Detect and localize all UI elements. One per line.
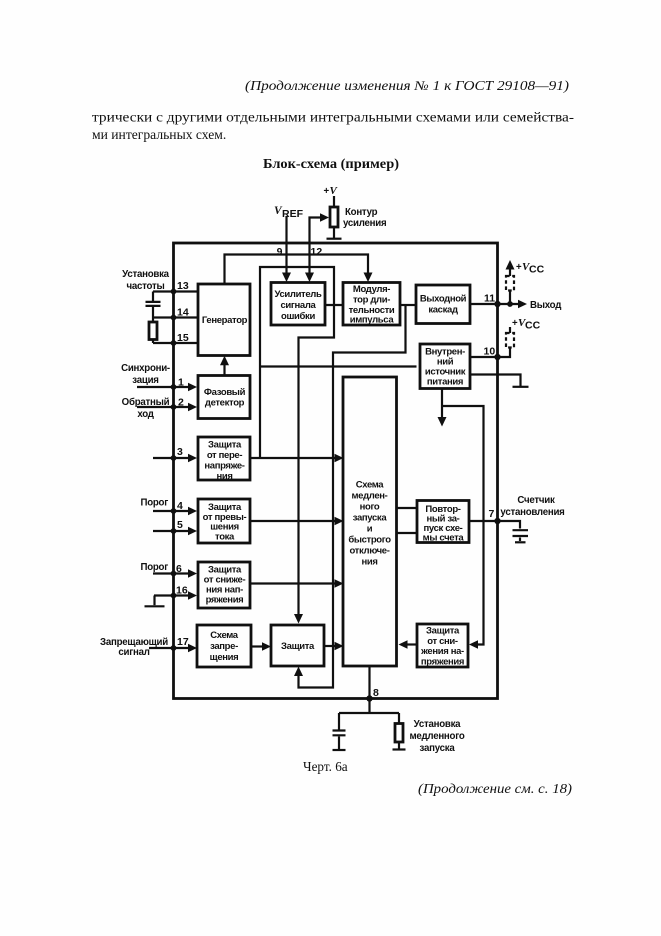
resistor dashed pull-up pin 10 xyxy=(506,333,514,348)
svg-text:запуска: запуска xyxy=(420,743,456,754)
wire pin 15 xyxy=(153,342,198,344)
wire pin 11 output xyxy=(470,303,521,305)
svg-text:Порог: Порог xyxy=(140,498,168,509)
block Защита от перенапряжения xyxy=(198,437,250,482)
arrowhead pin 6 into undervoltage protection xyxy=(188,569,197,578)
svg-text:Выходной: Выходной xyxy=(420,294,467,305)
arrowhead Выход xyxy=(518,300,527,309)
svg-text:частоты: частоты xyxy=(127,281,165,292)
ground pin 7 capacitor xyxy=(515,541,526,543)
svg-text:Модуля-: Модуля- xyxy=(353,284,390,295)
arrowhead pin 17 into inhibit circuit xyxy=(188,644,197,653)
wire feedback bracket over error amp xyxy=(260,267,334,617)
node pin 5 xyxy=(171,528,177,534)
node pin 17 xyxy=(171,645,177,651)
arrowhead into generator bottom xyxy=(220,356,229,366)
wire pin 3 xyxy=(153,457,192,459)
svg-text:зация: зация xyxy=(132,375,158,386)
wire resistor to ground xyxy=(333,227,335,238)
node pin 10 on boundary xyxy=(494,354,500,360)
svg-text:Схема: Схема xyxy=(210,630,239,641)
svg-text:и: и xyxy=(367,524,373,535)
svg-text:13: 13 xyxy=(177,280,189,292)
svg-text:отключе-: отключе- xyxy=(349,546,389,557)
svg-text:ния: ния xyxy=(216,471,232,482)
label VREF xyxy=(274,205,304,220)
block Повторный запуск схемы счета xyxy=(417,501,469,544)
svg-text:17: 17 xyxy=(177,636,189,648)
svg-text:4: 4 xyxy=(177,500,183,512)
svg-text:мы счета: мы счета xyxy=(423,533,465,544)
svg-text:3: 3 xyxy=(177,446,183,458)
ground slow start capacitor xyxy=(333,749,346,751)
wire +V to gain loop resistor xyxy=(333,196,335,207)
block Схема запрещения xyxy=(197,625,251,667)
svg-text:CC: CC xyxy=(529,264,545,276)
svg-text:Схема: Схема xyxy=(356,480,385,491)
svg-text:ния: ния xyxy=(361,557,377,568)
svg-text:щения: щения xyxy=(210,652,239,663)
svg-text:пряжения: пряжения xyxy=(421,656,464,667)
svg-text:7: 7 xyxy=(489,508,495,520)
ground slow start resistor xyxy=(393,748,406,750)
wire overvoltage protection output xyxy=(251,457,339,459)
svg-text:трически с другими отдельными: трически с другими отдельными интегральн… xyxy=(92,110,575,125)
svg-text:Защита: Защита xyxy=(281,641,315,652)
capacitor counter setting xyxy=(513,530,529,536)
svg-text:ного: ного xyxy=(360,502,380,513)
arrowhead pin 16 into undervoltage protection xyxy=(188,591,197,600)
arrowhead pin 4 into overcurrent protection xyxy=(188,507,197,516)
arrowhead into error amp top (VREF) xyxy=(282,273,291,283)
block Модулятор длительности импульса xyxy=(343,283,400,326)
svg-text:2: 2 xyxy=(178,397,184,409)
block Фазовый детектор xyxy=(198,376,250,419)
svg-text:каскад: каскад xyxy=(428,305,458,316)
arrowhead into error amp top (pin 12) xyxy=(305,273,314,283)
node pin 4 xyxy=(171,508,177,514)
svg-text:сигнал: сигнал xyxy=(118,647,149,658)
resistor R gain loop xyxy=(330,207,338,227)
svg-text:5: 5 xyxy=(177,519,183,531)
node pin 1 xyxy=(171,384,177,390)
svg-text:Усилитель: Усилитель xyxy=(275,289,322,300)
svg-text:15: 15 xyxy=(177,332,189,344)
wire pin 4 xyxy=(153,510,192,512)
arrowhead undervoltage into slow start xyxy=(335,579,344,588)
svg-text:ход: ход xyxy=(137,409,153,420)
svg-text:ряжения: ряжения xyxy=(206,595,244,606)
wire error amp to modulator xyxy=(326,304,344,306)
svg-text:медленного: медленного xyxy=(409,731,464,742)
arrowhead into protection left edge xyxy=(262,642,271,651)
svg-text:Защита: Защита xyxy=(208,440,242,451)
block Защита center xyxy=(271,625,324,666)
svg-text:1: 1 xyxy=(178,377,184,389)
label Запрещающий сигнал xyxy=(100,637,168,658)
svg-text:Установка: Установка xyxy=(122,269,170,280)
svg-text:16: 16 xyxy=(176,585,188,597)
svg-text:V: V xyxy=(330,185,339,197)
wire pin 2 xyxy=(137,406,192,408)
wire VREF pin 9 input xyxy=(285,216,287,276)
arrowhead up into protection block bottom xyxy=(294,667,303,677)
arrowhead overcurrent into slow start xyxy=(335,517,344,526)
svg-text:питания: питания xyxy=(427,377,463,388)
resistor dashed pull-up pin 11 xyxy=(506,276,514,291)
svg-text:Счетчик: Счетчик xyxy=(517,495,555,506)
arrowhead up to +Vcc pin 11 xyxy=(506,260,515,270)
svg-text:Контур: Контур xyxy=(345,207,378,218)
label Счетчик установления xyxy=(500,495,564,518)
arrowhead into modulator top xyxy=(364,273,373,283)
wire capacitor to ground pin 8 xyxy=(338,737,340,750)
wire internal supply branch to right protection xyxy=(442,406,484,645)
svg-text:10: 10 xyxy=(484,346,496,358)
svg-text:детектор: детектор xyxy=(205,398,245,409)
wire modulator to output stage xyxy=(400,304,416,306)
wire pin 16 xyxy=(154,594,192,596)
ground internal supply xyxy=(513,386,529,388)
arrowhead pin 1 into phase detector xyxy=(188,383,197,392)
wire pin 6 xyxy=(153,572,192,574)
svg-text:Установка: Установка xyxy=(414,719,462,730)
wire pin 16 to ground xyxy=(153,596,155,606)
svg-text:медлен-: медлен- xyxy=(352,491,388,502)
svg-text:Порог: Порог xyxy=(140,562,168,573)
node pin 3 xyxy=(171,455,177,461)
svg-text:Черт. 6а: Черт. 6а xyxy=(303,759,348,774)
wire long feedback from modulator output to protection bottom xyxy=(299,305,406,688)
label Обратный ход xyxy=(122,397,170,420)
arrowhead into slow start left edge from protection xyxy=(335,642,344,651)
wire right protection to slow start block xyxy=(405,643,418,645)
wire slow start to restart lower xyxy=(397,532,418,534)
capacitor frequency setting xyxy=(146,292,161,318)
wire pin 17 xyxy=(149,647,192,649)
wire slow start to restart upper xyxy=(397,507,418,509)
node pin 2 xyxy=(171,404,177,410)
wire phase detector to generator xyxy=(223,362,225,376)
block Выходной каскад xyxy=(416,285,470,324)
ground pin 16 xyxy=(145,605,165,607)
arrowhead into protection block top xyxy=(294,614,303,624)
node pin 14 xyxy=(171,315,177,321)
wire pin 5 xyxy=(153,530,192,532)
block Защита от превышения тока xyxy=(198,499,250,543)
block Защита от снижения напряжения right xyxy=(417,624,468,667)
wire rail to internal supply xyxy=(260,365,417,367)
svg-text:Генератор: Генератор xyxy=(202,315,248,326)
arrowhead pin 3 into overvoltage protection xyxy=(188,454,197,463)
wire overcurrent protection output xyxy=(251,520,339,522)
arrowhead into slow start right edge xyxy=(399,640,408,649)
svg-text:от пере-: от пере- xyxy=(207,450,243,461)
block Защита от снижения напряжения left xyxy=(198,562,250,608)
wire pin 14 xyxy=(153,316,198,318)
arrowhead pin 2 into phase detector xyxy=(188,403,197,412)
label Установка частоты xyxy=(122,269,170,292)
svg-text:ми интегральных схем.: ми интегральных схем. xyxy=(92,127,226,142)
wire resistor to ground pin 8 xyxy=(398,742,400,749)
svg-text:CC: CC xyxy=(525,320,541,332)
svg-text:Блок-схема (пример): Блок-схема (пример) xyxy=(263,156,399,172)
wire protection to slow start block xyxy=(325,645,339,647)
svg-text:(Продолжение см. с. 18): (Продолжение см. с. 18) xyxy=(418,781,572,796)
wire pin 8 xyxy=(339,667,399,730)
node pin 11 on boundary xyxy=(494,301,500,307)
wire internal supply to ground xyxy=(470,375,521,387)
label Синхронизация xyxy=(121,363,170,386)
svg-text:11: 11 xyxy=(484,293,495,305)
label Контур усиления xyxy=(343,207,386,229)
wire internal supply down arrow xyxy=(441,389,443,420)
node pin 16 xyxy=(171,593,177,599)
wire pin 7 output xyxy=(469,521,520,529)
wire undervoltage protection output xyxy=(251,582,339,584)
block Генератор xyxy=(198,284,250,356)
label Установка медленного запуска xyxy=(409,719,464,754)
node pull-up junction pin 11 xyxy=(507,301,513,307)
ground below gain resistor xyxy=(327,238,342,240)
svg-text:запре-: запре- xyxy=(210,641,238,652)
label +V xyxy=(324,185,339,197)
arrowhead into gain resistor xyxy=(320,213,329,222)
wire pin 12 input xyxy=(310,218,323,277)
wire resistor leads frequency setting xyxy=(152,318,154,344)
svg-text:напряже-: напряже- xyxy=(204,461,244,472)
svg-text:быстрого: быстрого xyxy=(348,535,391,546)
svg-text:импульса: импульса xyxy=(350,315,395,326)
wire pin 1 xyxy=(137,386,192,388)
wire pull-up resistor to +Vcc pin 11 xyxy=(509,263,511,304)
block Схема медленного запуска и быстрого отключения xyxy=(343,377,397,666)
svg-text:REF: REF xyxy=(282,208,304,220)
svg-text:тор дли-: тор дли- xyxy=(353,295,390,306)
node pin 15 xyxy=(171,340,177,346)
block Внутренний источник питания xyxy=(420,344,470,389)
svg-text:установления: установления xyxy=(500,507,564,518)
arrowhead internal supply feed xyxy=(438,417,447,427)
svg-text:8: 8 xyxy=(373,687,379,699)
svg-text:9: 9 xyxy=(277,246,283,258)
node pin 13 xyxy=(171,289,177,295)
svg-text:Синхрони-: Синхрони- xyxy=(121,363,170,374)
svg-text:усиления: усиления xyxy=(343,218,386,229)
svg-text:тока: тока xyxy=(215,531,235,542)
label +Vcc lower xyxy=(512,317,541,332)
arrowhead into right protection block xyxy=(469,640,478,649)
wire inhibit to protection xyxy=(252,645,266,647)
arrowhead overvoltage into slow start xyxy=(335,454,344,463)
wire top rail to generator and modulator xyxy=(225,255,369,284)
node pin 8 on boundary xyxy=(366,695,372,701)
resistor frequency setting xyxy=(149,322,157,340)
svg-text:6: 6 xyxy=(176,563,182,575)
svg-text:12: 12 xyxy=(311,246,323,258)
svg-text:(Продолжение изменения № 1 к Г: (Продолжение изменения № 1 к ГОСТ 29108—… xyxy=(245,78,569,93)
block Усилитель сигнала ошибки xyxy=(271,283,325,326)
svg-text:сигнала: сигнала xyxy=(281,300,317,311)
resistor slow start xyxy=(395,724,403,743)
wire pin 10 xyxy=(470,327,510,357)
wire capacitor to ground pin 7 xyxy=(519,538,521,542)
wire pin 13 xyxy=(153,290,198,292)
arrowhead pin 5 into overcurrent protection xyxy=(188,527,197,536)
svg-text:запуска: запуска xyxy=(353,513,388,524)
node pin 6 xyxy=(171,571,177,577)
svg-text:Фазовый: Фазовый xyxy=(204,387,246,398)
IC outer boundary rectangle xyxy=(174,243,498,699)
svg-text:14: 14 xyxy=(177,307,189,319)
capacitor slow start xyxy=(333,731,346,736)
node pin 7 on boundary xyxy=(494,518,500,524)
svg-text:Выход: Выход xyxy=(530,300,561,311)
svg-text:ошибки: ошибки xyxy=(281,311,315,322)
label +Vcc upper xyxy=(516,261,545,276)
